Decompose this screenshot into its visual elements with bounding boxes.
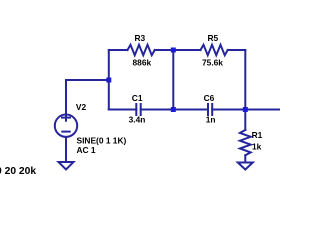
capacitor C6 <box>208 104 212 115</box>
wire R5 to right corner <box>228 49 246 51</box>
wire C1 to C6 <box>141 109 208 111</box>
svg-text:886k: 886k <box>133 57 152 67</box>
wire link vertical (between junctions) <box>172 50 174 110</box>
wire junction to R1 <box>244 110 246 131</box>
wire middle left to C1 <box>109 109 137 111</box>
svg-text:R1: R1 <box>252 130 263 140</box>
svg-text:V2: V2 <box>76 102 87 112</box>
svg-text:C1: C1 <box>132 93 143 103</box>
node junction right <box>243 107 248 112</box>
svg-text:0 20 20k: 0 20 20k <box>0 166 36 177</box>
wire right vertical <box>244 50 246 110</box>
resistor R5 <box>201 45 228 55</box>
wire C6 to right edge <box>212 109 280 111</box>
svg-text:R5: R5 <box>208 33 219 43</box>
resistor R3 <box>128 45 155 55</box>
svg-text:3.4n: 3.4n <box>129 114 146 124</box>
wire top-left vertical (node loop left) <box>108 50 110 110</box>
wire R1 to ground <box>244 155 246 162</box>
svg-text:R3: R3 <box>135 33 146 43</box>
voltage source V2 circle <box>55 115 77 137</box>
V2 plus sign <box>62 115 70 121</box>
node junction middle <box>171 107 176 112</box>
capacitor C1 <box>136 104 140 115</box>
ground (left) <box>59 162 74 170</box>
V2 minus sign <box>62 131 69 133</box>
wire from V2 to left node <box>66 80 109 115</box>
svg-text:75.6k: 75.6k <box>202 57 223 67</box>
svg-text:1k: 1k <box>252 141 262 151</box>
resistor R1 <box>240 130 251 155</box>
svg-text:C6: C6 <box>204 93 215 103</box>
node junction V2-left <box>106 78 111 83</box>
svg-text:1n: 1n <box>206 114 216 124</box>
node junction top <box>171 48 176 53</box>
svg-text:AC 1: AC 1 <box>77 145 96 155</box>
ground (right) <box>238 163 253 170</box>
wire V2 to ground <box>65 137 67 162</box>
wire R3 to R5 <box>155 49 201 51</box>
wire top lead into R3 <box>109 49 128 51</box>
